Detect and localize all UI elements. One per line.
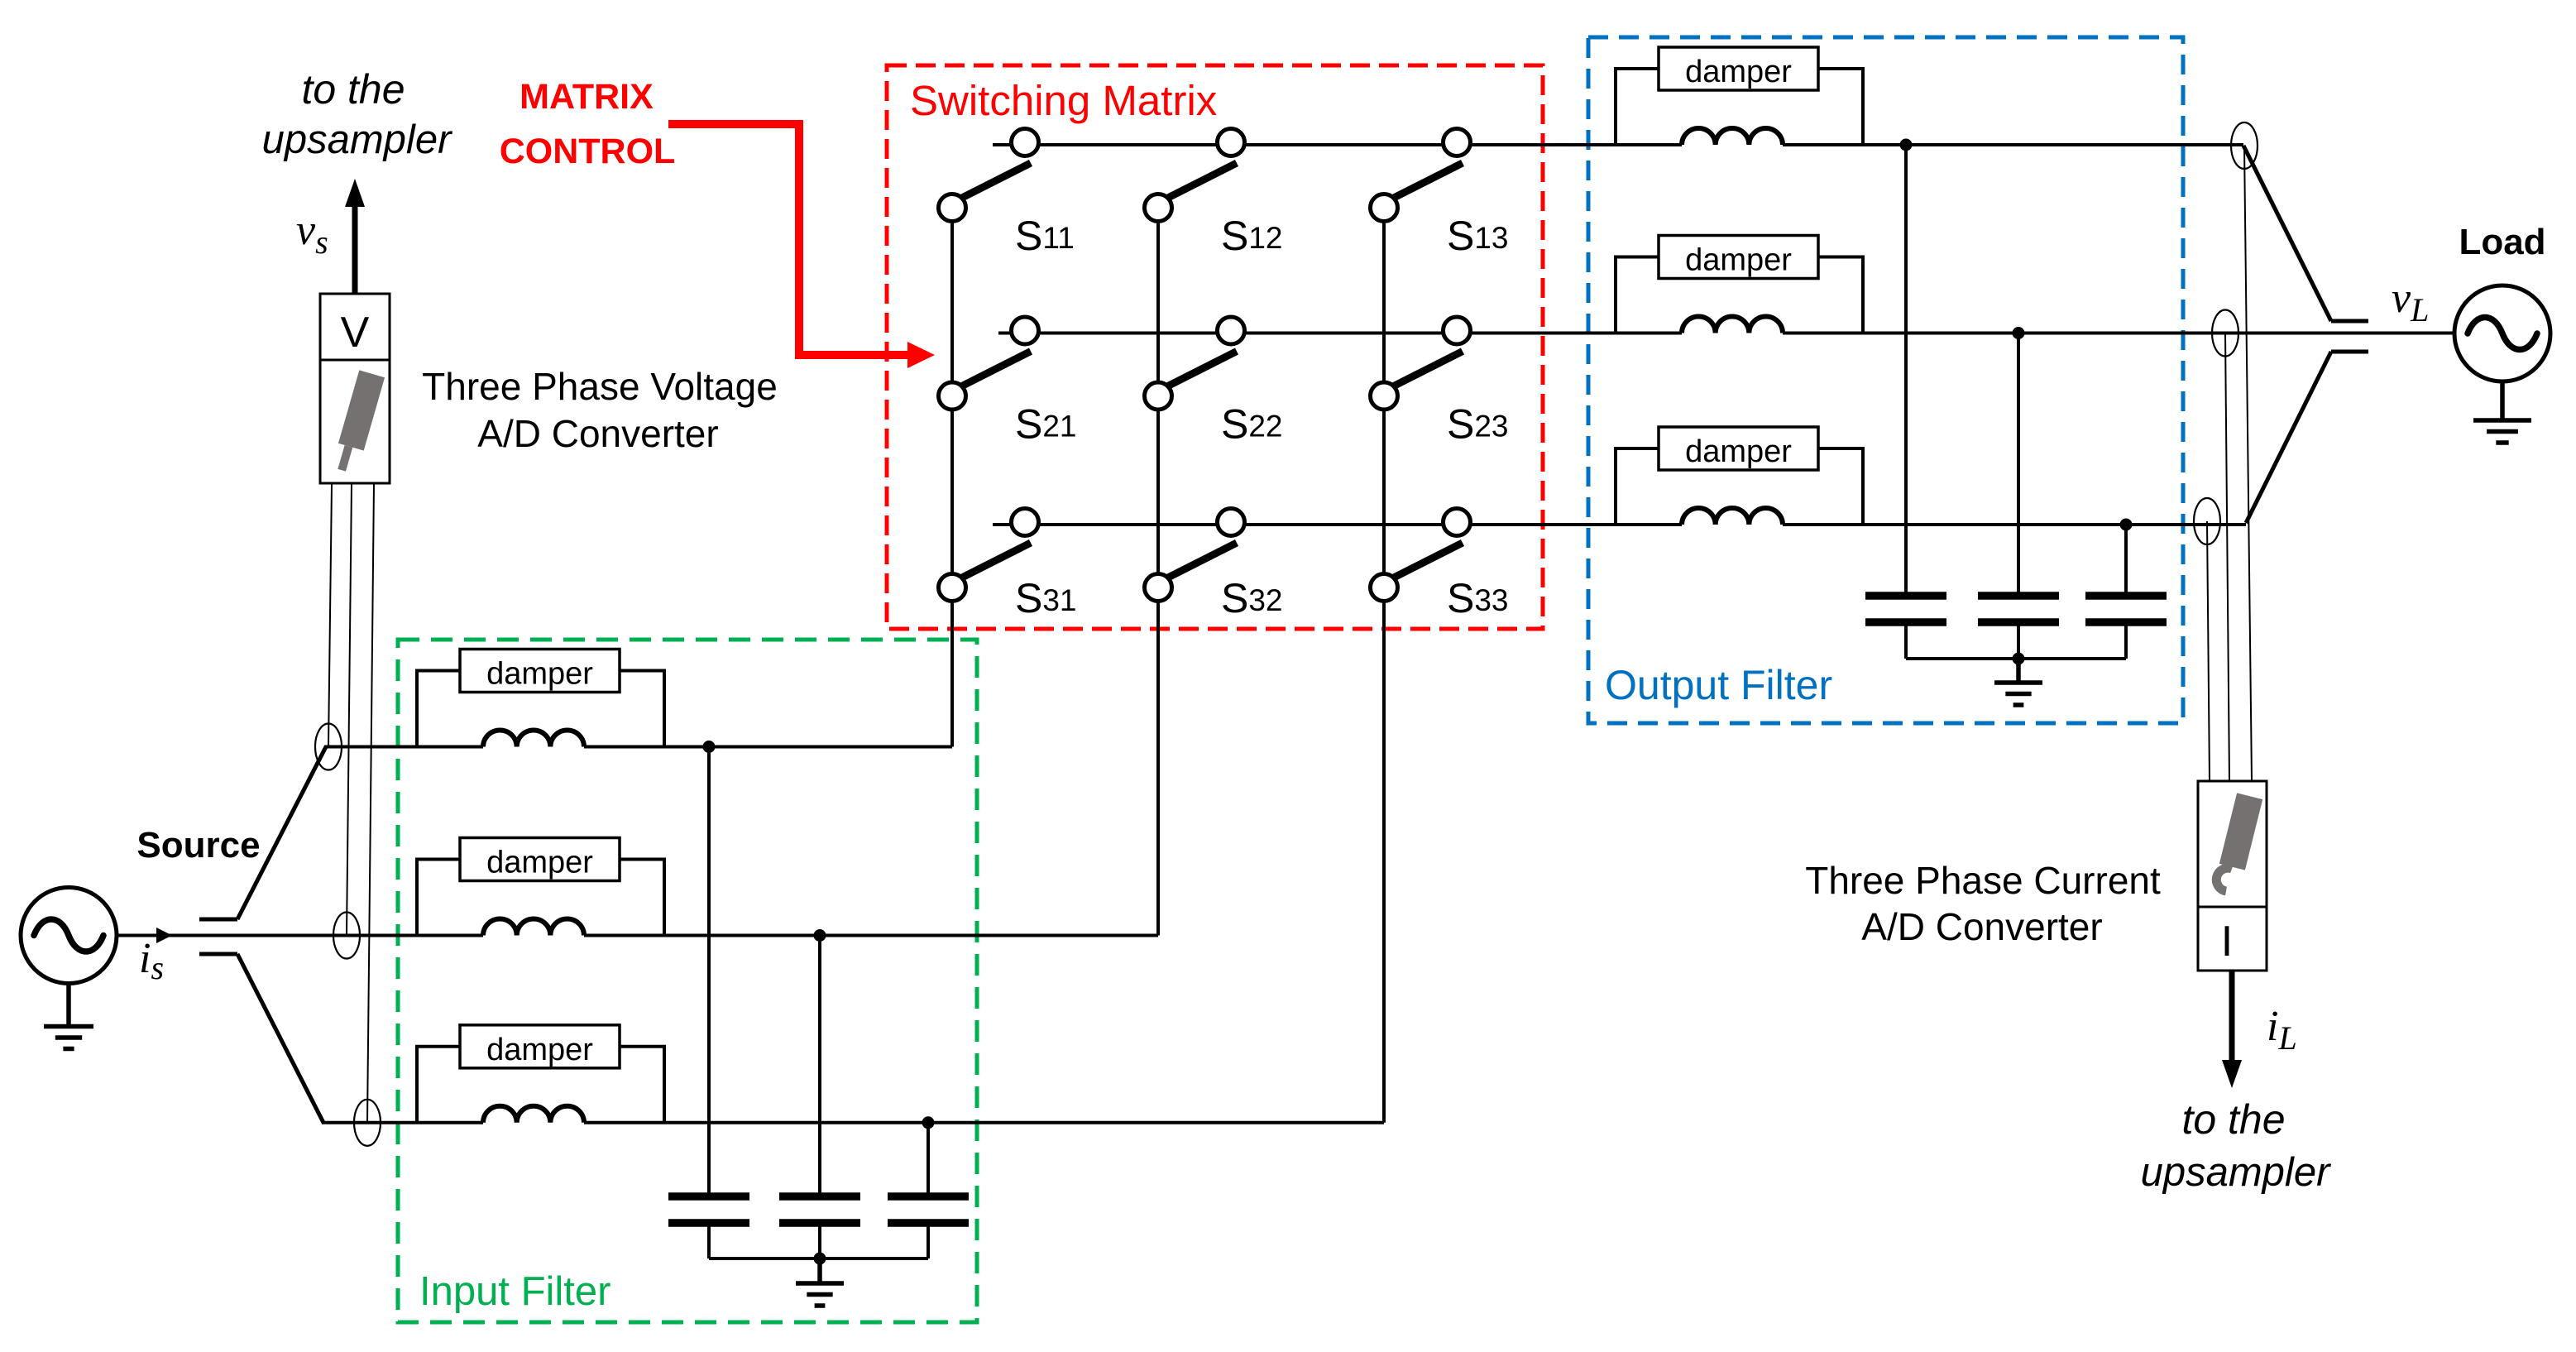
ground input filter <box>796 1259 844 1306</box>
output filter damper LA box <box>1659 47 1818 90</box>
sense loop c <box>354 1100 381 1146</box>
row 1 wire <box>993 143 1682 146</box>
output filter dashed box <box>1588 37 2183 723</box>
sense loop A <box>2231 122 2258 169</box>
svg-text:I: I <box>2221 918 2233 966</box>
i_L arrow <box>2229 971 2235 1062</box>
phase-a wire into input filter <box>324 746 483 749</box>
source phase-b wire (middle) <box>117 934 483 937</box>
switch S21 lever <box>957 352 1031 389</box>
phase-c wire: inductor to column 3 <box>584 1121 1384 1124</box>
svg-text:MATRIX: MATRIX <box>520 77 654 117</box>
switch S32 lower contact <box>1145 574 1172 602</box>
switch S22 upper contact <box>1218 317 1245 344</box>
input filter capacitor Ca lower lead <box>707 1226 711 1259</box>
switch S11 lever <box>957 163 1031 200</box>
column 1 wire <box>950 208 954 747</box>
switch S23 upper contact <box>1444 317 1471 344</box>
switch S13 lever <box>1389 163 1463 200</box>
ground at load <box>2473 381 2531 443</box>
output filter capacitor CA lower lead <box>1904 626 1908 659</box>
switch S33 lever <box>1389 543 1463 580</box>
junction output cap bus node <box>2013 653 2025 665</box>
switch S32 lever <box>1163 543 1237 580</box>
switch S13 lower contact <box>1371 194 1398 222</box>
output filter capacitor CC lower lead <box>2124 626 2128 659</box>
switch S32 upper contact <box>1218 509 1245 536</box>
svg-text:Three Phase Current: Three Phase Current <box>1805 859 2161 902</box>
output filter damper LB inductor <box>1682 316 1783 333</box>
source phase-c diagonal wire <box>237 954 323 1123</box>
svg-text:Three Phase Voltage: Three Phase Voltage <box>422 365 778 408</box>
switch S31 upper contact <box>1012 509 1039 536</box>
output filter capacitor CA lead <box>1904 145 1908 592</box>
source phase-c stub <box>199 952 237 956</box>
input filter capacitor Cc lead <box>926 1123 930 1193</box>
load phase-c stub <box>2331 350 2368 354</box>
output filter damper LC bypass wire <box>1616 448 1659 525</box>
column 2 wire <box>1156 208 1160 936</box>
svg-text:to the: to the <box>2181 1096 2285 1143</box>
switch S22 lower contact <box>1145 382 1172 410</box>
input filter damper Lc inductor <box>483 1106 584 1123</box>
switch S31 lever <box>957 543 1031 580</box>
input filter capacitor Cb lower lead <box>818 1226 821 1259</box>
source phase-a diagonal wire <box>237 747 326 920</box>
voltage probe icon <box>332 370 385 474</box>
voltage sense wire a <box>328 484 332 747</box>
current A/D converter box <box>2198 781 2267 971</box>
output filter damper LC box <box>1659 427 1818 470</box>
svg-text:Load: Load <box>2459 222 2545 262</box>
load phase-a stub <box>2331 319 2368 324</box>
current sense wire A <box>2244 146 2252 781</box>
matrix control signal wire <box>668 124 912 355</box>
sense loop a <box>315 724 342 770</box>
svg-text:damper: damper <box>1685 434 1792 469</box>
output filter capacitor CC lead <box>2124 525 2128 592</box>
junction output node B <box>2013 327 2025 339</box>
input filter damper Lc box <box>460 1025 620 1068</box>
input filter capacitor Cb plates <box>779 1192 860 1201</box>
svg-text:CONTROL: CONTROL <box>500 132 676 171</box>
svg-text:damper: damper <box>486 846 593 880</box>
svg-text:A/D Converter: A/D Converter <box>1861 905 2102 948</box>
switch S22 lever <box>1163 352 1237 389</box>
output filter damper LB bypass wire <box>1616 257 1659 333</box>
current clamp hook <box>2216 868 2232 891</box>
output filter capacitor bus wire <box>1906 657 2126 660</box>
svg-text:damper: damper <box>486 657 593 692</box>
output filter capacitor CB lower lead <box>2017 626 2020 659</box>
input filter capacitor Cc plates <box>888 1192 969 1201</box>
switch S23 lower contact <box>1371 382 1398 410</box>
junction output node C <box>2120 519 2133 531</box>
switch S11 upper contact <box>1012 129 1039 156</box>
sense loop b <box>333 913 360 959</box>
load AC circle <box>2454 285 2550 381</box>
input filter damper La box <box>460 650 620 693</box>
input filter damper Lc bypass wire <box>417 1047 460 1123</box>
column 3 wire <box>1382 208 1386 1123</box>
switch S12 lever <box>1163 163 1237 200</box>
input filter capacitor bus wire <box>709 1257 928 1260</box>
output filter damper LA bypass wire <box>1616 69 1659 145</box>
switch S12 upper contact <box>1218 129 1245 156</box>
switch S33 lower contact <box>1371 574 1398 602</box>
load phase-a diagonal wire <box>2243 146 2331 321</box>
ground output filter <box>1994 659 2042 705</box>
ground at source <box>44 984 93 1049</box>
voltage sense wire c <box>367 484 374 1123</box>
input filter damper La inductor <box>483 730 584 746</box>
wire: phase-b inductor to column 2 <box>584 934 1158 937</box>
switch S11 lower contact <box>939 194 966 222</box>
junction input node b <box>814 929 826 942</box>
svg-text:Output Filter: Output Filter <box>1605 662 1832 708</box>
switch S31 lower contact <box>939 574 966 602</box>
output filter capacitor CC plates <box>2085 592 2167 600</box>
junction output node A <box>1900 139 1913 151</box>
voltage A/D converter box <box>320 294 390 483</box>
input filter capacitor Cb lead <box>818 936 821 1194</box>
svg-text:V: V <box>341 309 370 357</box>
switch S21 upper contact <box>1012 317 1039 344</box>
source AC circle <box>21 888 117 984</box>
load AC sine <box>2468 318 2537 350</box>
switch S33 upper contact <box>1444 509 1471 536</box>
switching matrix dashed box <box>887 65 1543 629</box>
input filter damper Lb box <box>460 838 620 881</box>
source AC sine <box>34 919 103 952</box>
svg-text:damper: damper <box>486 1033 593 1067</box>
current clamp icon <box>2219 793 2262 870</box>
switch S23 lever <box>1389 352 1463 389</box>
junction input node c <box>922 1116 935 1129</box>
output filter capacitor CB lead <box>2017 333 2020 593</box>
svg-text:Switching Matrix: Switching Matrix <box>910 77 1217 124</box>
switch S12 lower contact <box>1145 194 1172 222</box>
v_s arrow <box>352 205 358 294</box>
svg-text:A/D Converter: A/D Converter <box>477 412 718 455</box>
switch S13 upper contact <box>1444 129 1471 156</box>
input filter dashed box <box>398 640 977 1322</box>
sense loop C <box>2194 498 2220 544</box>
voltage sense wire b <box>347 484 352 936</box>
row 2 wire <box>998 332 1682 335</box>
phase-c wire into input filter <box>322 1121 483 1124</box>
junction input cap bus node <box>814 1253 826 1265</box>
arrow i_s on source wire <box>156 928 172 943</box>
junction input node a <box>703 741 716 753</box>
sense loop B <box>2212 310 2238 357</box>
phase-a wire: inductor to column 1 <box>584 746 952 749</box>
current sense wire C <box>2207 521 2210 781</box>
output filter capacitor CB plates <box>1978 592 2059 600</box>
load phase-c diagonal wire <box>2246 352 2331 523</box>
input filter capacitor Ca lead <box>707 747 711 1194</box>
svg-text:Source: Source <box>136 825 260 865</box>
row 3 wire <box>993 523 1682 526</box>
svg-text:damper: damper <box>1685 243 1792 278</box>
switch S21 lower contact <box>939 382 966 410</box>
output filter damper LC inductor <box>1682 508 1783 525</box>
svg-text:Input Filter: Input Filter <box>419 1269 610 1314</box>
source phase-a stub <box>199 918 237 922</box>
svg-text:upsampler: upsampler <box>262 117 452 162</box>
output filter capacitor CA plates <box>1865 592 1946 600</box>
svg-text:damper: damper <box>1685 55 1792 89</box>
input filter damper La bypass wire <box>417 671 460 747</box>
output filter damper LB box <box>1659 236 1818 279</box>
svg-text:to the: to the <box>301 66 405 113</box>
input filter damper Lb inductor <box>483 919 584 936</box>
input filter capacitor Ca plates <box>668 1192 749 1201</box>
matrix control arrowhead <box>907 342 935 368</box>
input filter damper Lb bypass wire <box>417 860 460 936</box>
output filter damper LA inductor <box>1682 128 1783 145</box>
current sense wire B <box>2225 333 2229 782</box>
input filter capacitor Cc lower lead <box>926 1226 930 1259</box>
svg-text:upsampler: upsampler <box>2141 1150 2331 1195</box>
